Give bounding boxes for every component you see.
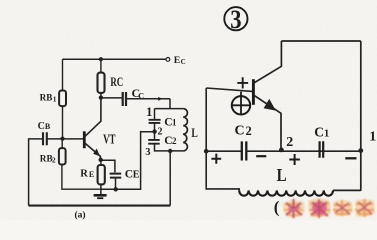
svg-text:2: 2 (158, 127, 163, 138)
label + (left of C2) (211, 154, 221, 164)
label + (right of node 2) (289, 154, 300, 165)
capacitor CB (43, 132, 47, 145)
svg-text:R: R (80, 168, 88, 179)
terminal Ec (166, 58, 170, 62)
svg-text:2: 2 (246, 124, 252, 138)
node 1 junction (b) (358, 148, 363, 153)
wire bottom left segment (b) (206, 188, 239, 191)
svg-text:C: C (38, 121, 45, 132)
capacitor C1 (b) (320, 141, 324, 158)
wire bottom right segment (b) (333, 189, 361, 191)
svg-text:B: B (45, 122, 51, 131)
node tank node 2 (152, 129, 156, 133)
label - (right of C2) (256, 155, 266, 157)
svg-text:3: 3 (230, 5, 241, 34)
wire left vertical (b) (205, 88, 207, 188)
wire top side (b) (281, 40, 360, 42)
wire RB1 bottom to base junction (62, 106, 64, 139)
transistor (b) base bar (252, 79, 255, 105)
node 2 (b) (279, 148, 284, 153)
transistor (b) emitter with arrow (254, 96, 281, 149)
wire main rail (b) middle segment (246, 150, 360, 152)
svg-text:(a): (a) (75, 209, 86, 220)
wire CB left lead and left drop (29, 139, 43, 206)
svg-text:L: L (191, 125, 198, 140)
svg-text:C: C (235, 124, 245, 139)
wire base wire (b) (206, 88, 252, 91)
svg-text:2: 2 (52, 155, 56, 164)
wire base wire CB to transistor (47, 138, 84, 140)
wire tank bottom to bottom rail (169, 151, 171, 206)
resistor RE (98, 165, 105, 184)
svg-text:E: E (133, 169, 140, 180)
inductor L (b) (239, 190, 333, 195)
wire RE top lead (100, 160, 102, 165)
wire tank left column lower and bottom side (155, 144, 184, 151)
transistor VT emitter with arrow (85, 143, 101, 160)
node left junction (b) (204, 149, 209, 154)
wire drop to tank top (169, 99, 171, 109)
svg-text:1: 1 (53, 94, 57, 103)
resistor RC (98, 73, 105, 93)
watermark char 3 (333, 200, 353, 216)
watermark char 1 (283, 199, 305, 218)
capacitor C1 (tank) (149, 120, 161, 123)
resistor RB2 (59, 148, 66, 164)
symbol circled plus (232, 96, 250, 114)
wire RE bottom lead through rail to ground (100, 184, 102, 194)
svg-text:1: 1 (324, 128, 329, 139)
wire tank left column middle (154, 123, 156, 139)
svg-text:VT: VT (103, 132, 115, 147)
circled number 3 (224, 7, 247, 30)
wire emitter junction to CE (101, 160, 115, 172)
inductor L (tank coil) (183, 109, 187, 151)
wire RB2 leads down to inner rail (62, 139, 101, 190)
svg-text:E: E (89, 170, 94, 179)
node tank bottom junction (168, 149, 172, 153)
svg-text:(: ( (274, 198, 280, 217)
label - (right of C1) (345, 157, 356, 159)
wire right vertical (b) (360, 41, 362, 191)
transistor VT base bar (83, 131, 86, 148)
watermark char 2 (308, 199, 331, 219)
capacitor CC (123, 92, 126, 106)
wire RC bottom to collector junction (100, 93, 102, 98)
node base junction (60, 137, 64, 141)
capacitor C2 (b) (242, 141, 247, 160)
transistor VT collector (85, 98, 101, 137)
svg-text:1: 1 (146, 105, 152, 119)
svg-text:L: L (277, 165, 287, 185)
svg-text:C: C (181, 58, 186, 66)
wire main rail (b) left segment (206, 150, 241, 152)
capacitor CE (110, 174, 122, 178)
svg-text:3: 3 (145, 147, 150, 158)
watermark char 4 (355, 199, 375, 217)
ground (94, 194, 107, 197)
wire bottom rail (a) (29, 205, 171, 207)
wire collector junction to CC (101, 97, 123, 99)
wire inner rail to node2 drop (101, 132, 154, 189)
wire RC top lead (100, 59, 102, 72)
capacitor C2 (tank) (148, 140, 160, 144)
svg-text:1: 1 (172, 118, 177, 128)
node emitter junction (99, 158, 103, 162)
svg-text:2: 2 (172, 136, 177, 146)
transistor (b) collector (254, 41, 281, 83)
svg-text:2: 2 (286, 135, 293, 150)
svg-text:RB: RB (40, 93, 53, 104)
wire top supply rail (a) (63, 58, 167, 60)
wire tank top side (155, 108, 184, 110)
svg-text:C: C (314, 124, 324, 139)
node junction top of RC (99, 57, 103, 61)
svg-text:1: 1 (369, 129, 376, 144)
wire CE bottom lead (115, 178, 117, 190)
node collector junction (99, 95, 103, 99)
svg-text:RC: RC (110, 74, 123, 89)
wire RB1 top lead (62, 59, 64, 90)
wire tank left column upper (154, 109, 156, 120)
resistor RB1 (59, 91, 66, 107)
label + (base polarity) (237, 77, 248, 88)
node CE bottom junction (114, 187, 118, 191)
wire CC to tank top with arrow (126, 98, 170, 100)
